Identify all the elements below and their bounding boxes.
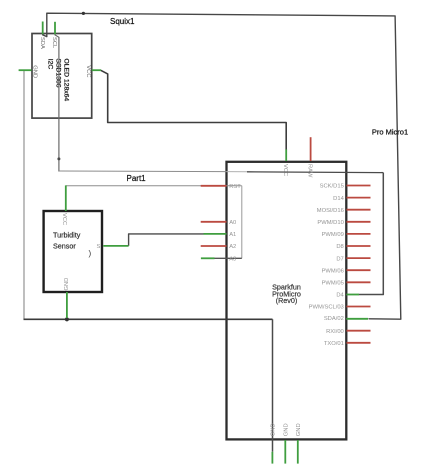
svg-text:Squix1: Squix1	[110, 17, 135, 26]
svg-text:TXO/01: TXO/01	[324, 341, 344, 347]
svg-text:Sensor: Sensor	[53, 242, 76, 251]
svg-text:D4: D4	[336, 293, 344, 299]
svg-text:PWM/09: PWM/09	[322, 232, 344, 238]
svg-text:SDA/02: SDA/02	[324, 316, 344, 322]
svg-text:RXI/00: RXI/00	[326, 329, 344, 335]
svg-text:A0: A0	[229, 220, 236, 226]
svg-text:MOSI/D16: MOSI/D16	[317, 208, 344, 214]
svg-text:GND: GND	[296, 423, 302, 436]
svg-text:): )	[89, 249, 92, 258]
svg-text:VCC: VCC	[61, 213, 67, 225]
svg-text:A3: A3	[229, 256, 236, 262]
svg-text:I2C: I2C	[46, 59, 53, 70]
svg-text:PWM/D10: PWM/D10	[317, 220, 343, 226]
svg-text:GND: GND	[64, 278, 70, 291]
svg-text:PWM/06: PWM/06	[322, 268, 344, 274]
svg-text:D14: D14	[333, 196, 344, 202]
svg-text:GND: GND	[271, 423, 277, 436]
svg-text:GND: GND	[31, 65, 37, 78]
svg-text:GND: GND	[283, 423, 289, 436]
svg-text:RAW: RAW	[307, 164, 313, 178]
svg-text:SDA: SDA	[39, 37, 45, 49]
svg-text:SSD1306: SSD1306	[55, 59, 62, 88]
svg-text:A1: A1	[229, 232, 236, 238]
svg-text:Part1: Part1	[127, 174, 147, 183]
svg-text:Pro Micro1: Pro Micro1	[372, 128, 408, 137]
svg-text:Turbidity: Turbidity	[53, 230, 81, 239]
svg-text:SCL: SCL	[51, 37, 57, 49]
svg-text:OLED 128x64: OLED 128x64	[63, 59, 70, 102]
svg-text:(Rev0): (Rev0)	[276, 296, 298, 305]
svg-text:S: S	[97, 244, 101, 250]
svg-text:VCC: VCC	[85, 65, 91, 77]
svg-text:VCC: VCC	[282, 164, 288, 176]
svg-text:A2: A2	[229, 244, 236, 250]
svg-text:PWM/05: PWM/05	[322, 281, 344, 287]
svg-text:D8: D8	[336, 244, 343, 250]
svg-text:D7: D7	[336, 256, 343, 262]
svg-text:PWM/SCL/03: PWM/SCL/03	[309, 305, 344, 311]
svg-text:SCK/D15: SCK/D15	[320, 184, 344, 190]
svg-text:RST: RST	[229, 184, 241, 190]
